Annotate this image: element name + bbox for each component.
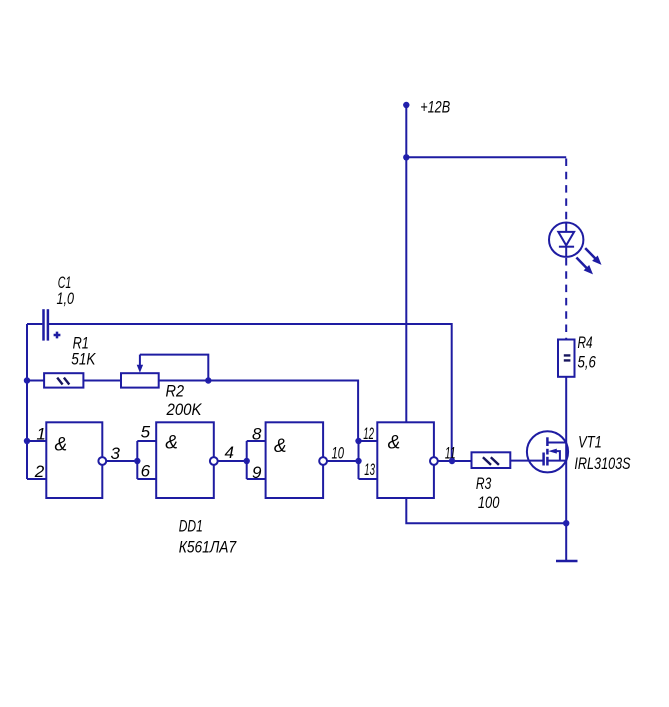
svg-text:5,6: 5,6 <box>578 353 597 372</box>
node rail to pin 1 <box>24 438 30 444</box>
svg-text:+12В: +12В <box>420 98 450 117</box>
resistor R3 <box>472 452 511 468</box>
svg-text:&: & <box>165 433 178 454</box>
node junction bottom rail to source <box>563 520 569 526</box>
svg-text:13: 13 <box>364 460 375 479</box>
svg-text:4: 4 <box>225 443 234 462</box>
node pin 11 feedback junction <box>449 458 455 464</box>
VT1 substrate link <box>555 451 560 461</box>
node gate4 upper input junction <box>355 438 361 444</box>
svg-text:&: & <box>274 436 287 457</box>
gate DD1.1 body <box>46 422 102 498</box>
LED anode lead inside <box>565 223 567 233</box>
svg-text:3: 3 <box>111 444 121 463</box>
svg-text:К561ЛА7: К561ЛА7 <box>179 538 237 557</box>
svg-text:R4: R4 <box>578 333 593 352</box>
wire R2 output to DD1.4 inputs <box>159 381 358 442</box>
VT1 source lead <box>547 460 566 462</box>
wire gate3 input stubs <box>247 441 266 479</box>
wire left rail to C1 <box>27 323 42 325</box>
svg-text:R3: R3 <box>476 474 492 493</box>
wire gate4 out to R3 <box>438 460 471 462</box>
wire +12V to LED branch horizontal <box>406 156 566 158</box>
DD1.3 output bubble <box>319 457 327 465</box>
C1 polarity plus sign <box>54 332 61 339</box>
resistor R1 <box>44 373 83 387</box>
wire C1 top feedback line to pin 11 node <box>49 324 452 461</box>
DD1.2 output bubble <box>210 457 218 465</box>
svg-text:IRL3103S: IRL3103S <box>574 454 631 473</box>
R3 power marks <box>483 457 499 465</box>
node junction at +12V to LED branch <box>403 154 409 160</box>
wire +12V vertical rail down to DD1.4 power pin <box>405 105 407 422</box>
LED cathode bar <box>559 246 574 248</box>
node gate2 input junction <box>134 458 140 464</box>
wire R1 to R2 <box>83 380 121 382</box>
svg-text:VT1: VT1 <box>578 433 602 452</box>
capacitor C1 left plate <box>42 309 45 340</box>
svg-text:2: 2 <box>34 462 45 481</box>
wire gate2 input stubs <box>137 441 156 479</box>
svg-text:6: 6 <box>141 462 151 481</box>
node gate4 input junction <box>355 458 361 464</box>
wire R4 to drain / source rail down to ground <box>565 377 567 561</box>
capacitor C1 right plate <box>47 309 50 340</box>
DD1.4 output bubble <box>430 457 438 465</box>
svg-text:200K: 200K <box>166 400 202 419</box>
R2 wiper arrowhead <box>137 365 143 373</box>
VT1 channel middle segment <box>546 449 549 455</box>
wire dashed to LED anode <box>565 159 567 223</box>
VT1 channel top segment <box>546 437 549 446</box>
svg-text:12: 12 <box>363 424 374 443</box>
wire gate1 out to gate2 in <box>107 460 138 462</box>
svg-text:100: 100 <box>478 493 500 512</box>
ground terminal bar <box>556 560 578 563</box>
wire gate2 out to gate3 in <box>218 460 247 462</box>
node +12V terminal dot <box>403 102 409 108</box>
wire gate3 out to gate4 in <box>328 460 359 462</box>
R1 power marks <box>57 378 69 385</box>
gate DD1.4 body <box>377 422 434 498</box>
LED emission arrow 2 <box>576 258 593 275</box>
svg-text:&: & <box>388 433 401 454</box>
LED HL1 circle <box>549 223 583 257</box>
transistor VT1 circle <box>527 431 568 472</box>
wire pin 2 <box>27 478 46 480</box>
VT1 channel bottom segment <box>546 457 549 466</box>
gate DD1.3 body <box>266 422 324 498</box>
svg-text:51K: 51K <box>71 350 96 369</box>
VT1 substrate arrow <box>548 449 557 454</box>
wire gate4 input stubs <box>359 441 378 479</box>
svg-text:R2: R2 <box>166 381 185 400</box>
LED triangle <box>558 232 574 246</box>
node rail to R1 <box>24 377 30 383</box>
gate DD1.2 body <box>156 422 214 498</box>
wire pin 1 <box>27 440 46 442</box>
wire rail to R1 <box>27 380 44 382</box>
svg-text:&: & <box>55 435 68 456</box>
LED emission arrow 1 <box>585 248 601 265</box>
svg-text:10: 10 <box>332 444 345 463</box>
svg-text:1: 1 <box>36 425 45 444</box>
resistor R2 potentiometer <box>121 373 159 387</box>
resistor R4 <box>558 340 575 377</box>
svg-text:5: 5 <box>141 422 151 441</box>
svg-text:9: 9 <box>252 463 262 482</box>
VT1 gate lead <box>510 460 543 462</box>
svg-text:1,0: 1,0 <box>57 289 75 308</box>
node wiper tap junction <box>205 377 211 383</box>
VT1 drain lead <box>547 442 566 444</box>
wire left vertical rail <box>26 324 28 479</box>
wire bottom rail DD1.4 to source <box>406 498 566 523</box>
svg-text:8: 8 <box>252 425 262 444</box>
node gate3 input junction <box>244 458 250 464</box>
LED cathode lead inside <box>565 247 567 257</box>
R4 power marks <box>564 355 571 360</box>
DD1.1 output bubble <box>98 457 106 465</box>
svg-text:DD1: DD1 <box>179 517 203 536</box>
wire dashed LED cathode to R4 <box>565 258 567 339</box>
VT1 gate electrode bar <box>542 453 545 466</box>
R2 wiper arrow stem <box>139 355 141 366</box>
R2 wiper link wire <box>140 355 208 381</box>
